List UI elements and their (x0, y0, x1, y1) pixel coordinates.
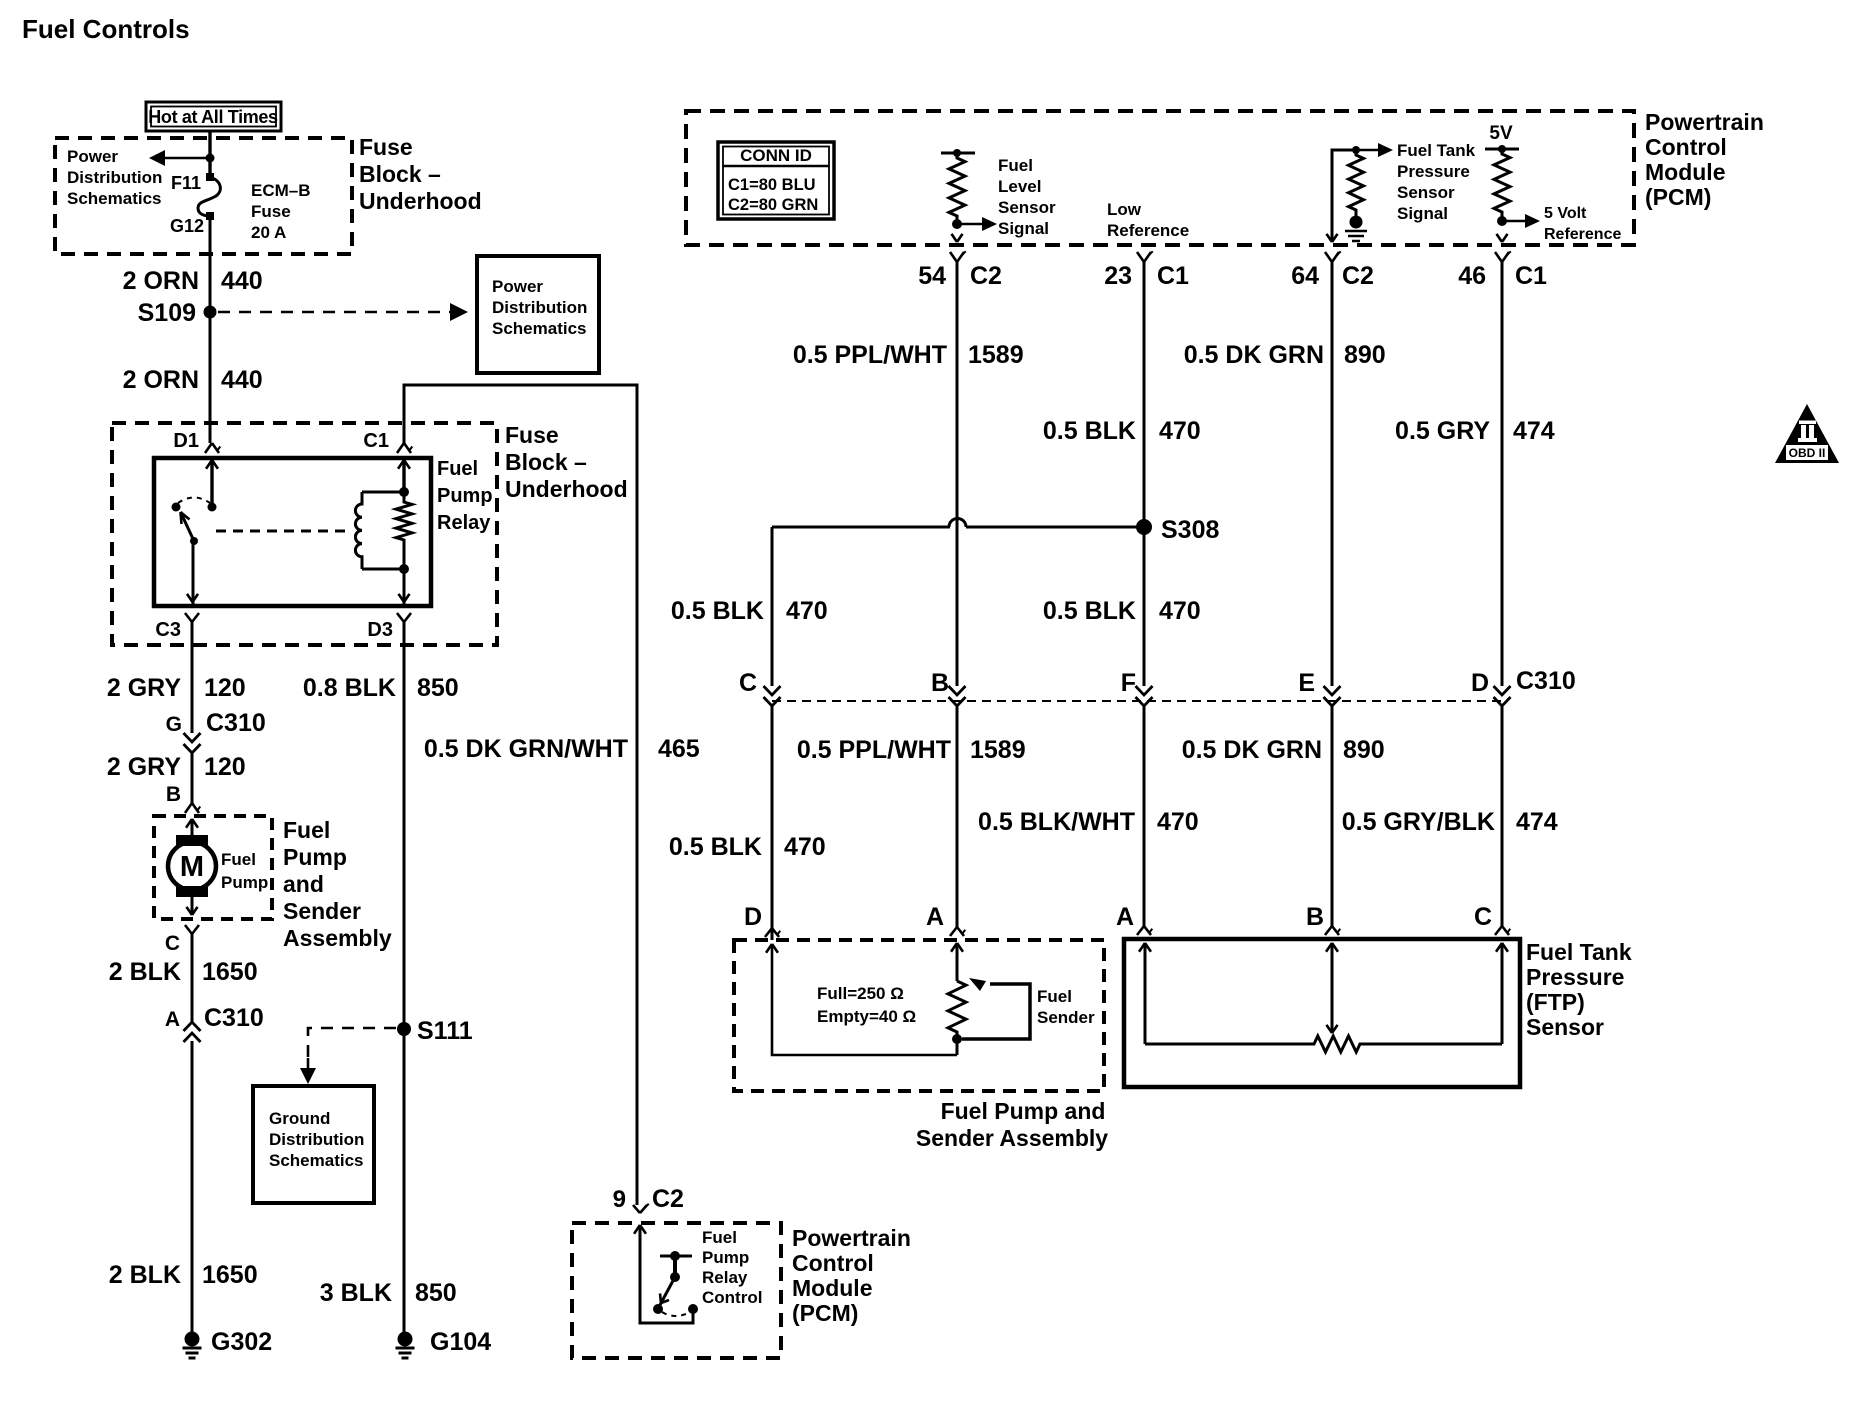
relay box: Fuel Pump Relay (154, 458, 431, 606)
dashed box: Fuse Block - Underhood (top) (55, 138, 352, 254)
svg-text:C1: C1 (1515, 262, 1547, 290)
svg-text:Underhood: Underhood (505, 476, 628, 502)
svg-text:OBD II: OBD II (1789, 446, 1826, 460)
svg-text:Schematics: Schematics (67, 189, 162, 208)
svg-text:(PCM): (PCM) (792, 1300, 858, 1326)
svg-text:A: A (1116, 903, 1134, 931)
svg-text:(FTP): (FTP) (1526, 989, 1585, 1015)
svg-text:Sender: Sender (283, 898, 361, 924)
svg-text:Power: Power (67, 147, 118, 166)
svg-text:C310: C310 (1516, 667, 1576, 695)
svg-text:G12: G12 (170, 216, 204, 236)
inline connector C310 row (dashed) (772, 700, 1502, 702)
svg-text:Fuse: Fuse (505, 422, 559, 448)
svg-text:Fuel Tank: Fuel Tank (1397, 141, 1476, 160)
PCM driver: fuel pump relay control switch (634, 1225, 640, 1234)
svg-text:Fuse: Fuse (359, 134, 413, 160)
svg-text:C1=80 BLU: C1=80 BLU (728, 176, 816, 194)
svg-text:Sensor: Sensor (1397, 183, 1455, 202)
svg-text:Hot at All Times: Hot at All Times (148, 107, 278, 127)
splice S111 (397, 1022, 411, 1036)
svg-text:2 BLK: 2 BLK (109, 958, 181, 986)
svg-text:D1: D1 (173, 430, 199, 452)
svg-text:474: 474 (1516, 808, 1558, 836)
svg-text:1650: 1650 (202, 958, 258, 986)
svg-text:G302: G302 (211, 1328, 272, 1356)
svg-text:440: 440 (221, 366, 263, 394)
svg-text:C2=80 GRN: C2=80 GRN (728, 196, 818, 214)
pin 54 C2 connector (950, 252, 957, 262)
svg-text:474: 474 (1513, 417, 1555, 445)
svg-text:Pressure: Pressure (1397, 162, 1470, 181)
svg-text:Assembly: Assembly (283, 925, 392, 951)
svg-text:Powertrain: Powertrain (1645, 109, 1764, 135)
wire: C310 G to fuel pump B (191, 752, 194, 803)
svg-text:0.8 BLK: 0.8 BLK (303, 674, 396, 702)
svg-text:54: 54 (918, 262, 946, 290)
svg-text:B: B (166, 783, 181, 806)
svg-text:Module: Module (792, 1275, 873, 1301)
svg-text:Fuel: Fuel (283, 817, 330, 843)
svg-text:2 ORN: 2 ORN (123, 267, 199, 295)
svg-text:120: 120 (204, 674, 246, 702)
svg-text:C2: C2 (1342, 262, 1374, 290)
fuel sender: wiper arm (962, 984, 1030, 1039)
dashed box: Fuel Pump and Sender Assembly (pump) (154, 816, 272, 919)
fuel pump motor M (186, 819, 192, 828)
splice S109 (204, 306, 217, 319)
svg-text:Powertrain: Powertrain (792, 1225, 911, 1251)
relay linkage (dashed) (216, 530, 351, 533)
svg-text:1589: 1589 (970, 736, 1026, 764)
wire hop over pin 54 wire (949, 519, 966, 528)
svg-text:Sender Assembly: Sender Assembly (916, 1125, 1108, 1151)
arrow: into Power Distribution Schematics box (450, 303, 468, 321)
svg-text:Control: Control (1645, 134, 1727, 160)
svg-text:Control: Control (792, 1250, 874, 1276)
svg-text:Pressure: Pressure (1526, 964, 1624, 990)
svg-text:0.5 PPL/WHT: 0.5 PPL/WHT (797, 736, 951, 764)
relay switch: pivot contact (172, 503, 181, 512)
svg-text:Low: Low (1107, 200, 1142, 219)
svg-text:Signal: Signal (1397, 204, 1448, 223)
svg-text:Pump: Pump (221, 873, 268, 892)
svg-text:Distribution: Distribution (269, 1130, 364, 1149)
svg-text:Power: Power (492, 277, 543, 296)
relay switch: travel arc (dashed) (178, 498, 210, 504)
svg-text:0.5 BLK: 0.5 BLK (671, 597, 764, 625)
splice S308 branch wire (772, 526, 950, 529)
svg-text:470: 470 (786, 597, 828, 625)
arrow: into Ground Distribution Schematics box (300, 1068, 316, 1084)
svg-text:M: M (180, 851, 204, 883)
svg-text:S109: S109 (138, 299, 196, 327)
internal ground (FTP) (1350, 216, 1363, 229)
dashed box: Powertrain Control Module (bottom) (572, 1223, 781, 1358)
svg-text:Fuel: Fuel (998, 156, 1033, 175)
svg-text:Schematics: Schematics (492, 319, 587, 338)
splice S308 (1136, 519, 1152, 535)
svg-text:Sensor: Sensor (998, 198, 1056, 217)
svg-text:Fuel: Fuel (221, 850, 256, 869)
ground G104 (398, 1332, 413, 1347)
svg-text:0.5 BLK: 0.5 BLK (1043, 417, 1136, 445)
svg-text:Underhood: Underhood (359, 188, 482, 214)
svg-text:C2: C2 (652, 1185, 684, 1213)
svg-text:850: 850 (415, 1279, 457, 1307)
svg-text:470: 470 (784, 833, 826, 861)
svg-text:A: A (926, 903, 944, 931)
dashed box: Powertrain Control Module (top) (686, 111, 1634, 245)
PCM internal: fuel tank pressure sensor signal network (1332, 150, 1356, 242)
pin 64 C2 connector (1325, 252, 1332, 262)
svg-text:E: E (1298, 669, 1315, 697)
fuse F11: ECM-B Fuse 20 A symbol (206, 173, 214, 181)
resistor to ground (FTP signal) (1349, 150, 1364, 218)
wire: fuel pump C down to C310 A (191, 934, 194, 1022)
svg-text:9: 9 (613, 1186, 626, 1213)
wire: relay arm to C3 (192, 541, 195, 604)
arrow: Fuel Tank Pressure Sensor Signal (1378, 143, 1393, 157)
svg-text:Fuel Tank: Fuel Tank (1526, 939, 1632, 965)
svg-text:D3: D3 (367, 619, 393, 641)
wire: to pin 54 (951, 234, 957, 242)
svg-text:CONN ID: CONN ID (740, 146, 812, 165)
svg-text:D: D (744, 903, 762, 931)
svg-text:Fuel: Fuel (437, 458, 478, 480)
svg-text:Distribution: Distribution (67, 168, 162, 187)
svg-text:2 GRY: 2 GRY (107, 674, 181, 702)
wire: fuse G12 down to S109 (209, 220, 212, 312)
dashed box: Fuse Block - Underhood (relay) (112, 423, 497, 645)
relay coil branch (362, 491, 404, 494)
svg-text:5 Volt: 5 Volt (1544, 205, 1587, 222)
label box: Hot at All Times (146, 102, 281, 131)
svg-text:C1: C1 (363, 430, 389, 452)
svg-text:Sensor: Sensor (1526, 1014, 1604, 1040)
svg-text:470: 470 (1159, 417, 1201, 445)
pin 23 C1 connector (1137, 252, 1144, 262)
svg-text:Level: Level (998, 177, 1041, 196)
svg-text:2 ORN: 2 ORN (123, 366, 199, 394)
wire: S109 down to fuse block D1 (209, 312, 212, 443)
svg-text:Pump: Pump (437, 485, 493, 507)
wire: C1 up over to PCM fuel pump relay control (404, 385, 637, 1205)
node: junction dot at power feed (206, 154, 215, 163)
dashed box: Fuel Pump and Sender Assembly (sender) (734, 940, 1104, 1091)
svg-text:0.5 BLK/WHT: 0.5 BLK/WHT (978, 808, 1135, 836)
svg-text:C1: C1 (1157, 262, 1189, 290)
svg-text:Control: Control (702, 1288, 762, 1307)
svg-text:Fuel Pump and: Fuel Pump and (941, 1098, 1106, 1124)
svg-text:470: 470 (1159, 597, 1201, 625)
svg-text:23: 23 (1104, 262, 1132, 290)
svg-text:5V: 5V (1489, 123, 1513, 144)
svg-text:C3: C3 (155, 619, 181, 641)
relay switch: movable arm (181, 513, 194, 541)
svg-text:0.5 BLK: 0.5 BLK (1043, 597, 1136, 625)
wire: to pin 46 (1496, 234, 1502, 242)
svg-text:C: C (1474, 903, 1492, 931)
svg-text:20 A: 20 A (251, 223, 286, 242)
svg-text:(PCM): (PCM) (1645, 184, 1711, 210)
svg-text:3 BLK: 3 BLK (320, 1279, 392, 1307)
svg-text:G: G (166, 713, 182, 736)
svg-text:F: F (1121, 669, 1136, 697)
wire: to pin 64 (1326, 234, 1332, 242)
svg-text:B: B (931, 669, 949, 697)
svg-text:C: C (165, 932, 180, 955)
box: Power Distribution Schematics (477, 256, 599, 373)
svg-text:Fuel Controls: Fuel Controls (22, 14, 190, 44)
fuel sender: pin A wire and resistor (951, 943, 957, 952)
svg-text:890: 890 (1343, 736, 1385, 764)
svg-text:2 BLK: 2 BLK (109, 1261, 181, 1289)
svg-text:850: 850 (417, 674, 459, 702)
svg-text:0.5 GRY/BLK: 0.5 GRY/BLK (1342, 808, 1495, 836)
svg-text:0.5 DK GRN: 0.5 DK GRN (1184, 341, 1324, 369)
svg-text:Module: Module (1645, 159, 1726, 185)
FTP sensor: potentiometer (1139, 943, 1145, 952)
svg-text:46: 46 (1458, 262, 1486, 290)
svg-text:F11: F11 (171, 173, 201, 193)
svg-text:Relay: Relay (702, 1268, 748, 1287)
svg-text:Ground: Ground (269, 1109, 330, 1128)
dashed wire: S111 to Ground Distribution Schematics (308, 1028, 396, 1062)
box: Fuel Tank Pressure (FTP) Sensor (1124, 939, 1520, 1087)
svg-text:S111: S111 (417, 1017, 473, 1045)
svg-text:Block –: Block – (359, 161, 441, 187)
svg-text:465: 465 (658, 735, 700, 763)
svg-text:470: 470 (1157, 808, 1199, 836)
svg-text:0.5 DK GRN/WHT: 0.5 DK GRN/WHT (424, 735, 628, 763)
fuel sender: pin D wire (766, 944, 772, 953)
svg-text:Fuel: Fuel (702, 1228, 737, 1247)
wire: relay to D3 (403, 569, 406, 604)
svg-text:Empty=40 Ω: Empty=40 Ω (817, 1007, 916, 1026)
svg-text:D: D (1471, 669, 1489, 697)
table: CONN ID / C1=80 BLU / C2=80 GRN (718, 142, 834, 219)
svg-text:1589: 1589 (968, 341, 1024, 369)
arrow: 5 Volt Reference (1502, 220, 1526, 223)
svg-text:Full=250 Ω: Full=250 Ω (817, 984, 904, 1003)
svg-text:120: 120 (204, 753, 246, 781)
svg-text:B: B (1306, 903, 1324, 931)
svg-text:64: 64 (1291, 262, 1319, 290)
wire: feed to Power Distribution arrow (163, 157, 210, 160)
pin 46 C1 connector (1495, 252, 1502, 262)
svg-text:Fuel: Fuel (1037, 987, 1072, 1006)
relay coil resistor (parallel) (398, 460, 404, 469)
wire: C3 down to C310 connector G (191, 645, 194, 733)
PCM internal: fuel level sensor pull-up resistor (941, 152, 975, 155)
wire: Hot at All Times to fuse F11 (208, 131, 211, 177)
svg-text:Fuse: Fuse (251, 202, 291, 221)
svg-text:Pump: Pump (283, 844, 347, 870)
svg-text:Sender: Sender (1037, 1008, 1095, 1027)
svg-text:1650: 1650 (202, 1261, 258, 1289)
arrow: to Power Distribution Schematics (left) (149, 150, 165, 166)
svg-text:Block –: Block – (505, 449, 587, 475)
svg-text:Distribution: Distribution (492, 298, 587, 317)
svg-text:G104: G104 (430, 1328, 491, 1356)
svg-text:C310: C310 (206, 709, 266, 737)
svg-text:Signal: Signal (998, 219, 1049, 238)
svg-text:Reference: Reference (1544, 226, 1621, 243)
svg-text:0.5 BLK: 0.5 BLK (669, 833, 762, 861)
svg-text:Reference: Reference (1107, 221, 1189, 240)
icon: OBD II triangle (1775, 404, 1839, 463)
svg-text:0.5 GRY: 0.5 GRY (1395, 417, 1490, 445)
svg-text:Pump: Pump (702, 1248, 749, 1267)
ground G302 (185, 1332, 200, 1347)
svg-text:ECM–B: ECM–B (251, 181, 311, 200)
svg-text:0.5 PPL/WHT: 0.5 PPL/WHT (793, 341, 947, 369)
svg-text:440: 440 (221, 267, 263, 295)
arrow: Fuel Level Sensor Signal (957, 223, 984, 226)
FTP sensor: wiper from pin B (1326, 943, 1332, 952)
box: Ground Distribution Schematics (253, 1086, 374, 1203)
wire: S308 branch down to connector C (771, 527, 774, 686)
svg-text:S308: S308 (1161, 516, 1219, 544)
svg-text:Relay: Relay (437, 512, 491, 534)
svg-text:and: and (283, 871, 324, 897)
svg-text:C: C (739, 669, 757, 697)
wire: C310 A down to G302 (191, 1041, 194, 1332)
dashed wire: S109 to Power Distribution Schematics (218, 311, 450, 314)
svg-text:0.5 DK GRN: 0.5 DK GRN (1182, 736, 1322, 764)
svg-text:A: A (165, 1008, 180, 1031)
wire: D3 down to G104 (403, 645, 406, 1332)
svg-text:C310: C310 (204, 1004, 264, 1032)
relay switch: common from D1 (206, 460, 212, 469)
svg-text:C2: C2 (970, 262, 1002, 290)
svg-text:Schematics: Schematics (269, 1151, 364, 1170)
svg-text:890: 890 (1344, 341, 1386, 369)
svg-text:2 GRY: 2 GRY (107, 753, 181, 781)
